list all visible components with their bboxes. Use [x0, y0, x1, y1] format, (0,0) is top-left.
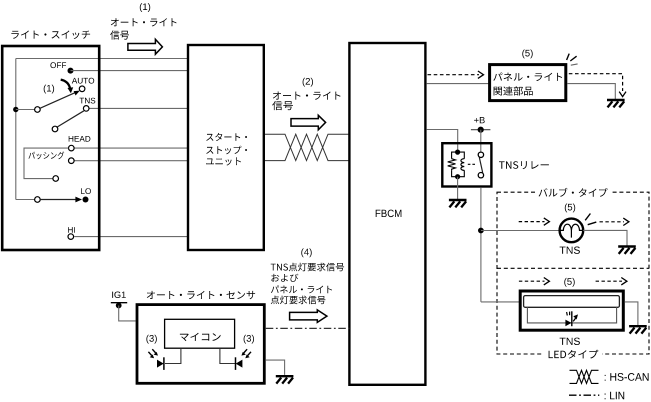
lever pivot circle	[35, 107, 41, 113]
microcomputer box (maikon)	[165, 319, 235, 348]
dashed arrow panel parts to ground	[569, 74, 623, 91]
contact TNS (open circle) + wire to unit	[89, 107, 188, 109]
label HEAD	[69, 136, 91, 142]
IG1 supply bar	[111, 302, 127, 304]
left light arrows	[152, 349, 155, 353]
contact HEAD + wire to unit	[74, 147, 188, 149]
light switch box (raito suicchi)	[2, 46, 99, 250]
ground: sensor	[276, 376, 294, 383]
node IG1 dot	[116, 303, 122, 309]
contact OFF (filled dot)	[68, 68, 74, 74]
auto light sensor box	[137, 305, 264, 384]
LED module rounded rect	[524, 296, 620, 308]
LO lever arrow	[40, 199, 76, 201]
LED emission rays	[566, 312, 569, 316]
label (5) LED	[564, 278, 574, 287]
passing bracket wire	[24, 148, 68, 179]
dashed mechanical link	[468, 163, 477, 165]
contact below HEAD + wire to unit	[74, 160, 188, 162]
node +B dot	[478, 127, 484, 133]
wire: bus to AUTO lever pivot	[16, 109, 35, 111]
TNS LED unit box	[520, 291, 623, 330]
light rays at bulb	[585, 214, 596, 225]
block arrow (2)	[291, 115, 326, 130]
wire relay to LED unit	[481, 301, 520, 303]
passing lever pivot	[53, 176, 59, 182]
label (5) panel	[522, 50, 532, 59]
FBCM box	[349, 43, 425, 385]
label (1) top	[140, 3, 150, 12]
label: auto light signal (1)	[110, 18, 176, 39]
dashed arrow into bulb	[519, 221, 545, 223]
wire relay to TNS bulb	[481, 230, 560, 232]
dashed arrow out of bulb	[600, 221, 625, 223]
wire panel parts to ground	[567, 84, 615, 99]
dashed arrow into LED unit	[519, 280, 545, 282]
wire +B to relay switch	[480, 130, 482, 153]
legend HS-CAN twisted pair symbol	[570, 370, 599, 383]
wire relay switch down to lamp feed	[480, 188, 482, 302]
wire LED unit to ground	[625, 302, 638, 325]
right light arrows	[244, 349, 247, 353]
label HI	[68, 227, 75, 233]
label TNS relay (TNS riree)	[499, 161, 549, 169]
label (5) bulb	[565, 204, 575, 213]
label TNS	[80, 98, 96, 104]
switch lever to AUTO with arrowhead	[40, 92, 77, 108]
HS-CAN twisted pair wire B	[265, 134, 349, 160]
wire bulb to ground	[583, 230, 627, 245]
dashed signal arrow FBCM to panel parts	[428, 74, 480, 76]
label (3) right	[244, 335, 254, 344]
LIN dash-dot wire sensor to FBCM	[266, 327, 350, 329]
TNS lever	[57, 111, 84, 127]
HS-CAN twisted pair wire A	[265, 134, 349, 160]
label TNS LED	[560, 338, 580, 345]
coil bumps inside relay	[461, 159, 464, 171]
label (4)	[301, 248, 311, 257]
wire maikon to right photodiode	[220, 348, 235, 363]
label: TNS lighting request signal lines	[271, 263, 344, 305]
light rays at panel box corner	[567, 54, 577, 61]
wire sensor to ground	[266, 360, 285, 375]
label AUTO	[72, 78, 94, 84]
ground: relay coil	[449, 200, 467, 207]
relay switch top contact	[478, 152, 483, 157]
wire FBCM to panel parts	[427, 83, 490, 85]
label TNS bulb	[560, 247, 580, 254]
label FBCM	[376, 210, 402, 218]
TNS relay box	[442, 143, 491, 186]
label: panel light related parts	[493, 73, 562, 96]
label: bulb type (barubu taipu) on top edge	[535, 186, 611, 198]
left photodiode	[157, 360, 164, 368]
wire maikon to left photodiode	[165, 348, 181, 363]
wire: OFF line to start-stop unit	[71, 70, 189, 72]
LED branch bracket	[527, 307, 616, 323]
label IG1	[112, 292, 126, 299]
curved rotation arrow (1)	[61, 80, 70, 89]
legend LIN dash-dot sample	[569, 394, 599, 396]
label +B	[474, 117, 485, 123]
wire: top feed line to start-stop unit	[16, 58, 188, 60]
relay coil parallel branch outline	[452, 152, 465, 177]
label (1) at switch	[44, 85, 54, 94]
label OFF	[50, 62, 66, 68]
contact LO (filled dot)	[83, 197, 89, 203]
start-stop unit box	[188, 45, 264, 250]
label LO	[81, 188, 91, 194]
label: auto light signal (2)	[272, 92, 340, 111]
ground: TNS bulb	[618, 247, 636, 254]
wire: switch common bus vertical	[15, 59, 17, 200]
relay switch lever	[479, 157, 482, 172]
node: relay coil top	[455, 150, 460, 155]
resistor zigzag inside relay	[448, 159, 456, 171]
label (2)	[303, 78, 313, 87]
panel light related parts box	[490, 65, 566, 101]
LO lever pivot	[35, 197, 41, 203]
dashed box: bulb type / LED type	[497, 192, 649, 354]
wire relay coil to ground	[457, 177, 459, 200]
TNS bulb lamp symbol	[560, 219, 584, 243]
label: light switch	[11, 31, 90, 40]
label maikon	[180, 333, 221, 341]
block arrow (1)	[128, 39, 162, 54]
label: start stop unit	[206, 133, 247, 166]
divider between bulb and LED sections	[497, 267, 649, 269]
relay switch bottom contact	[478, 173, 483, 178]
dashed arrow out of LED unit	[596, 280, 622, 282]
LED diode symbol	[565, 320, 571, 327]
block arrow (4)	[290, 310, 327, 323]
ground: LED unit	[629, 326, 647, 333]
label: LED type on bottom edge	[544, 348, 602, 360]
+B supply bar	[471, 129, 491, 131]
label: auto light sensor	[147, 291, 255, 299]
wire IG1 to sensor	[119, 306, 136, 321]
wire: bus to LO lever	[16, 199, 35, 201]
right photodiode	[236, 360, 243, 368]
legend label HS-CAN	[605, 373, 649, 381]
contact HI + wire to unit	[74, 236, 188, 238]
label (3) left	[146, 335, 156, 344]
legend label LIN	[605, 392, 625, 400]
contact AUTO (open circle)	[79, 86, 85, 92]
label passing (passhingu)	[29, 152, 65, 160]
wire FBCM to relay coil	[427, 130, 458, 151]
ground: panel light parts	[607, 100, 625, 107]
node: lamp feed junction	[478, 228, 484, 234]
node: relay coil bottom	[455, 174, 460, 179]
node: junction dot on bus	[13, 107, 18, 112]
